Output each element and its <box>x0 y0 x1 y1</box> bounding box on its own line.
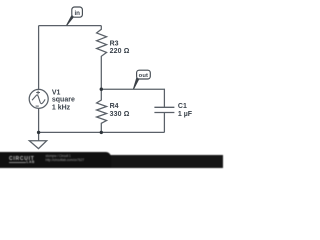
node junction bottom <box>100 131 103 134</box>
flag in <box>66 7 82 26</box>
CircuitLab logo <box>9 156 35 162</box>
ground <box>29 132 46 148</box>
R3 labels <box>110 41 130 55</box>
wire node to C1 top <box>101 89 164 107</box>
capacitor C1 <box>154 107 174 112</box>
wire left vertical lower <box>38 108 40 132</box>
voltage source V1 <box>29 89 48 108</box>
wire top rail <box>39 25 102 27</box>
flag out <box>133 70 150 89</box>
wire C1 bottom lead <box>163 113 165 133</box>
node junction top <box>100 88 103 91</box>
watermark text <box>46 155 85 163</box>
V1 labels <box>52 89 75 111</box>
wire left vertical upper <box>38 26 40 90</box>
C1 labels <box>178 103 193 118</box>
node junction left <box>37 131 40 134</box>
watermark bar <box>0 0 220 165</box>
R4 labels <box>110 103 130 118</box>
resistor R3 <box>97 26 107 90</box>
resistor R4 <box>97 89 107 132</box>
wire bottom rail <box>39 131 165 133</box>
